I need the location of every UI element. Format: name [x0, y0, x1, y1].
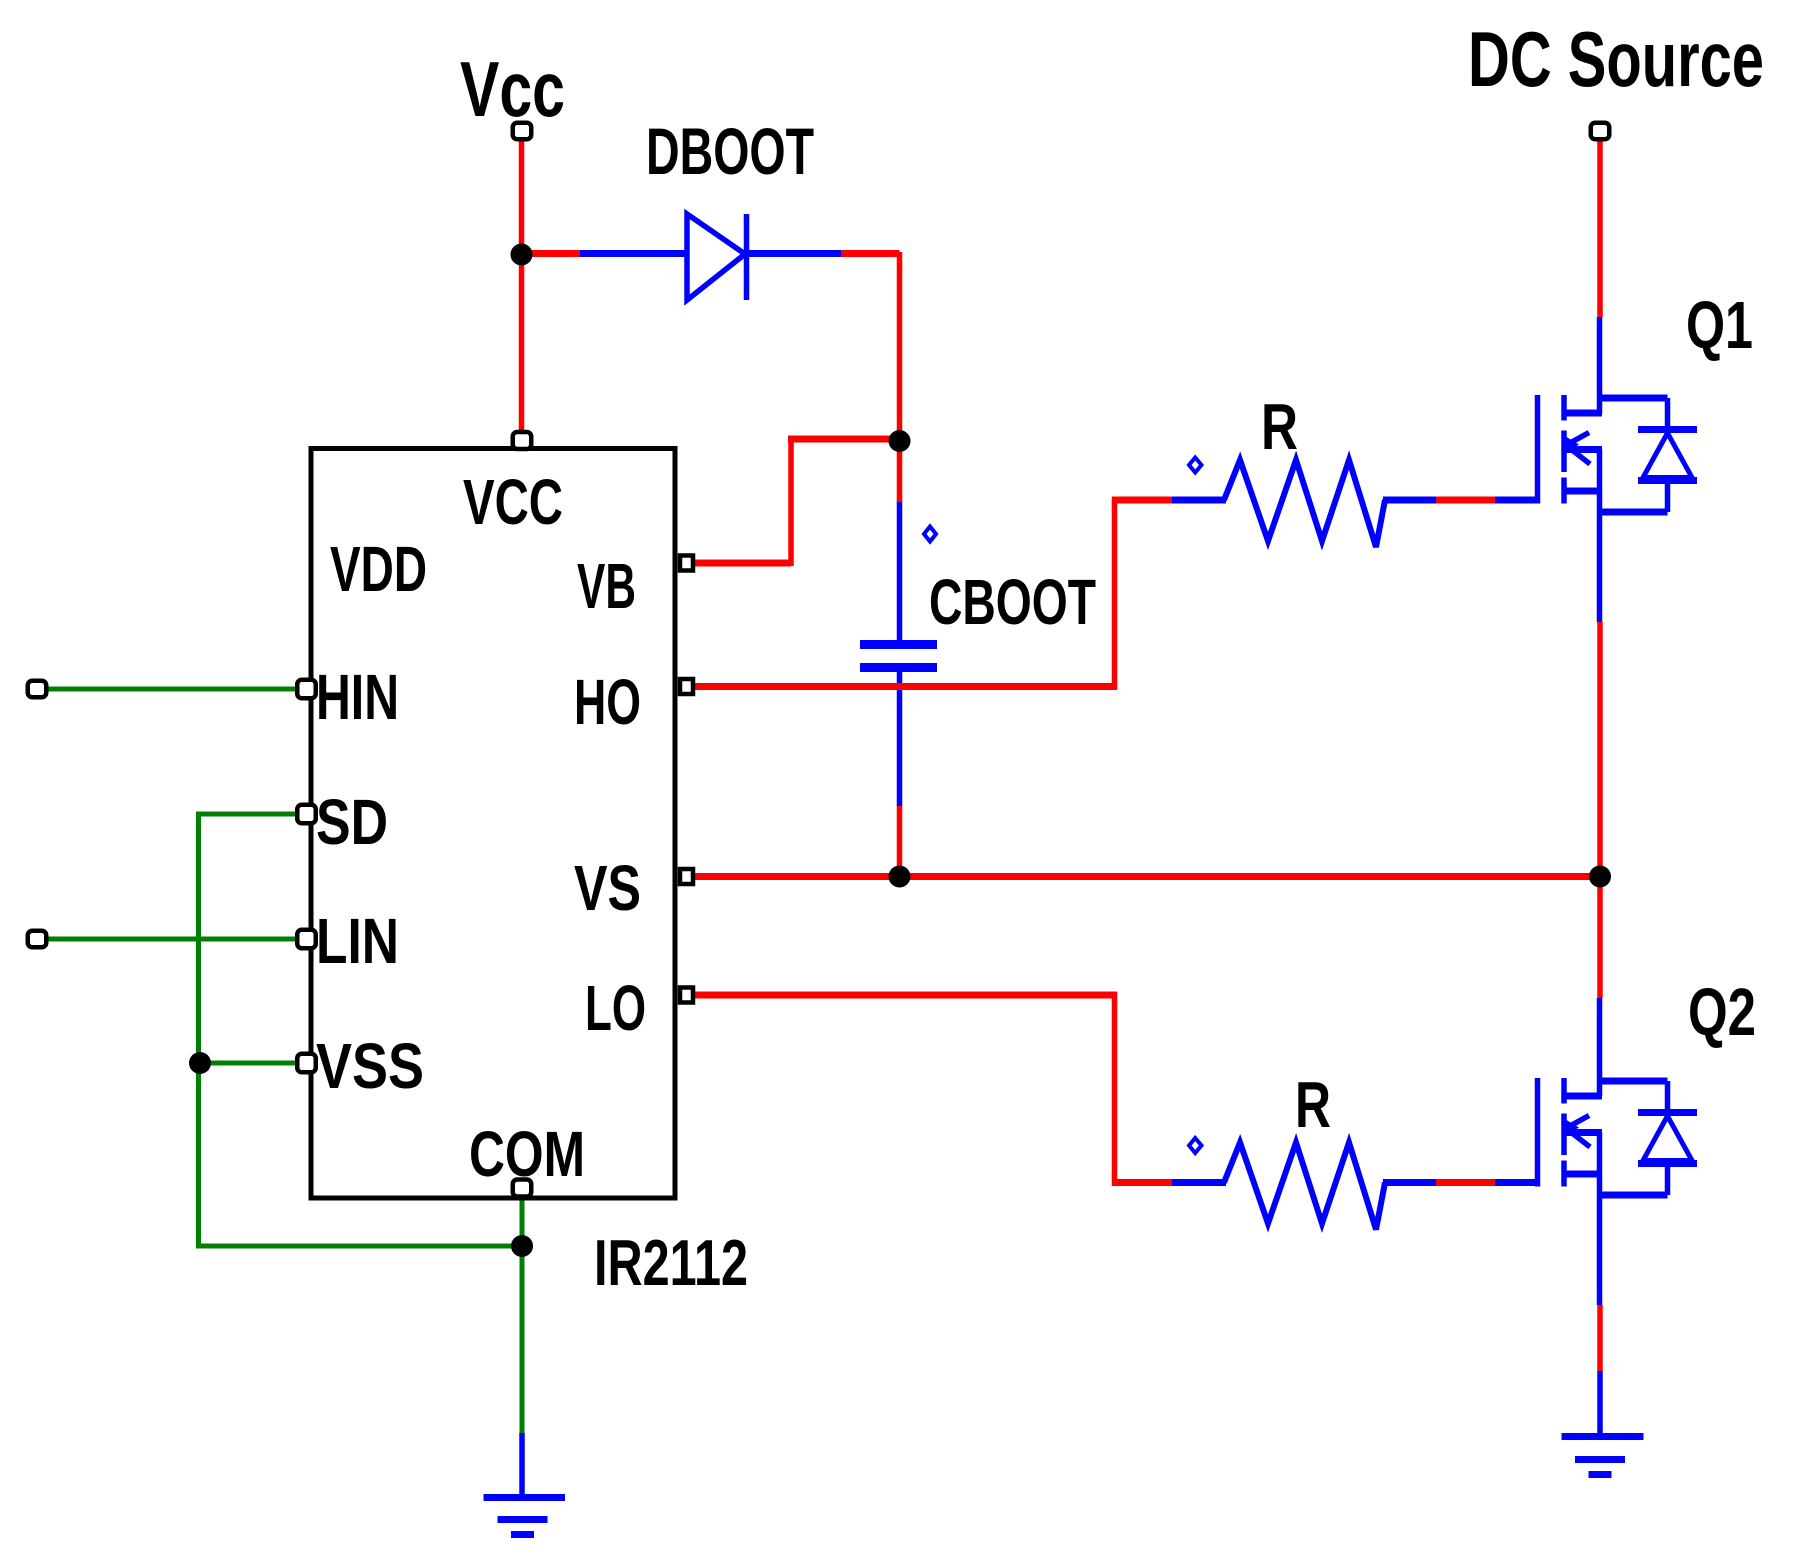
- svg-text:LO: LO: [585, 972, 646, 1044]
- svg-text:VCC: VCC: [463, 466, 563, 538]
- svg-text:R: R: [1295, 1068, 1331, 1141]
- svg-text:DC Source: DC Source: [1468, 15, 1764, 103]
- svg-text:SD: SD: [316, 786, 388, 858]
- svg-text:COM: COM: [469, 1118, 585, 1190]
- svg-text:HO: HO: [574, 666, 641, 738]
- svg-text:VSS: VSS: [316, 1030, 424, 1102]
- svg-text:Q1: Q1: [1686, 288, 1753, 363]
- svg-text:HIN: HIN: [316, 661, 399, 733]
- svg-text:VS: VS: [574, 852, 641, 924]
- svg-text:DBOOT: DBOOT: [646, 114, 814, 188]
- svg-text:IR2112: IR2112: [594, 1226, 748, 1299]
- svg-text:Vcc: Vcc: [460, 45, 565, 133]
- svg-text:Q2: Q2: [1688, 975, 1756, 1050]
- svg-text:R: R: [1261, 390, 1298, 463]
- svg-text:LIN: LIN: [316, 905, 399, 977]
- svg-text:VB: VB: [577, 550, 636, 622]
- svg-text:VDD: VDD: [330, 533, 427, 605]
- svg-text:CBOOT: CBOOT: [929, 566, 1096, 638]
